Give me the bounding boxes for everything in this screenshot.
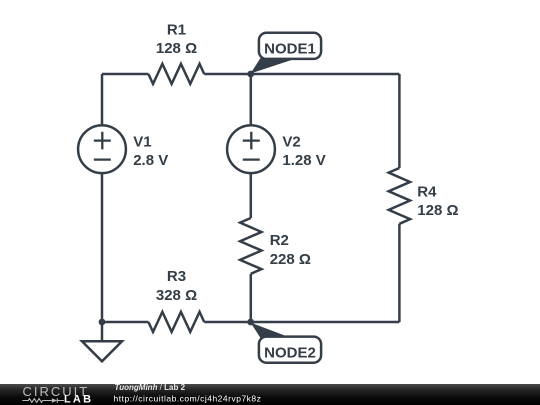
resistor R4: [389, 168, 410, 224]
node NODE2 callout pointer: [251, 323, 289, 339]
svg-text:128 Ω: 128 Ω: [417, 202, 458, 219]
wire left branch upper: [101, 74, 104, 125]
svg-text:NODE2: NODE2: [264, 345, 316, 362]
node junction dot NODE1: [247, 71, 254, 78]
wire top-left segment: [102, 73, 148, 76]
svg-text:328 Ω: 328 Ω: [156, 287, 197, 304]
voltage source V2: [227, 125, 275, 173]
footer logo resistor-diode glyph: [22, 398, 64, 403]
svg-text:R3: R3: [167, 268, 186, 285]
svg-text:R1: R1: [167, 21, 186, 38]
junction dot ground node: [99, 319, 106, 326]
wire below R2: [250, 274, 253, 322]
resistor R2: [240, 218, 261, 274]
node NODE1 label box: [259, 33, 321, 59]
wire left branch lower: [101, 174, 104, 323]
ground: [82, 341, 122, 361]
svg-text:2.8 V: 2.8 V: [133, 152, 168, 169]
svg-text:NODE1: NODE1: [264, 41, 316, 58]
resistor R1: [148, 64, 204, 84]
wire top-right segment: [204, 73, 399, 76]
resistor R3: [148, 312, 204, 332]
node NODE1 callout pointer: [251, 58, 294, 74]
node NODE2 label box: [259, 337, 321, 363]
svg-text:LAB: LAB: [64, 394, 93, 405]
wire ground stem: [101, 322, 104, 341]
svg-text:V2: V2: [282, 133, 300, 150]
svg-text:R4: R4: [417, 183, 437, 200]
svg-text:R2: R2: [270, 232, 289, 249]
footer bar: [0, 384, 540, 405]
wire bottom-right segment: [204, 321, 399, 324]
node junction dot NODE2: [247, 319, 254, 326]
svg-text:228 Ω: 228 Ω: [270, 251, 311, 268]
voltage source V1: [78, 125, 126, 173]
wire between V2 and R2: [250, 174, 253, 219]
svg-text:V1: V1: [133, 133, 151, 150]
svg-text:http://circuitlab.com/cj4h24rv: http://circuitlab.com/cj4h24rvp7k8z: [114, 393, 262, 403]
wire right branch lower: [398, 224, 401, 322]
svg-text:1.28 V: 1.28 V: [282, 152, 325, 169]
svg-text:128 Ω: 128 Ω: [156, 40, 197, 57]
svg-text:TuongMinh / Lab 2: TuongMinh / Lab 2: [115, 383, 186, 392]
wire bottom-left segment: [102, 321, 148, 324]
wire right branch upper: [398, 74, 401, 168]
wire middle branch upper: [250, 74, 253, 125]
